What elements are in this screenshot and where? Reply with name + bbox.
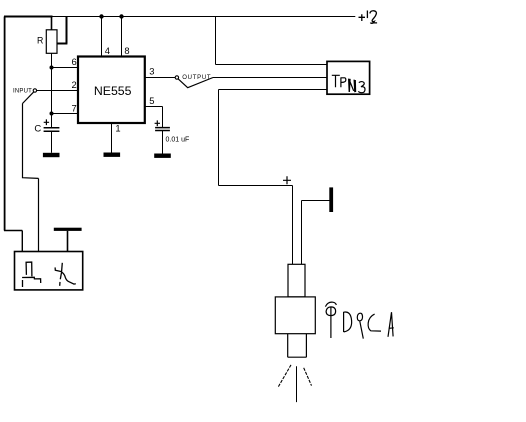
injector body xyxy=(275,297,315,334)
plus mark at spark plug xyxy=(283,176,291,184)
wire: HV lead down xyxy=(292,186,294,265)
wire: plate to sensor box xyxy=(67,231,69,252)
capacitor C plates xyxy=(44,128,60,132)
svg-text:NE555: NE555 xyxy=(94,84,132,98)
input terminal circle xyxy=(33,89,36,92)
capacitor C2 plates xyxy=(155,128,170,131)
electrode bar xyxy=(329,187,333,212)
wire: left branch from rail to sensor box xyxy=(4,17,22,252)
svg-text:6: 6 xyxy=(72,56,77,67)
wire pin 5 xyxy=(145,107,163,128)
antenna plate bar xyxy=(54,228,82,231)
wire: C2 to ground xyxy=(162,131,164,154)
sensor symbol: staple xyxy=(26,262,32,276)
svg-text:INPUT: INPUT xyxy=(13,89,32,95)
svg-text:3: 3 xyxy=(149,66,154,77)
IC U1 NE555 xyxy=(78,57,145,124)
wire: resistor tap to rail xyxy=(57,17,67,44)
transformer T1 box xyxy=(327,61,370,94)
svg-text:2: 2 xyxy=(72,79,77,90)
svg-text:1: 1 xyxy=(115,123,120,134)
svg-text:4: 4 xyxy=(105,45,110,56)
capacitor C2 polarity + xyxy=(155,120,160,126)
wire: output to transformer xyxy=(213,77,327,79)
label TPNZ (handwritten) xyxy=(332,75,365,92)
sensor symbol: scribble X xyxy=(55,263,76,286)
junction dot rail/pin8 xyxy=(119,14,123,18)
svg-text:5: 5 xyxy=(149,95,154,106)
svg-text:C: C xyxy=(34,123,41,134)
resistor R xyxy=(46,30,57,54)
junction dot pin7 node xyxy=(50,112,54,116)
ground under C xyxy=(43,153,60,157)
label FORSA (handwritten) xyxy=(325,302,393,338)
wire pin 6 xyxy=(52,67,79,69)
injector nozzle xyxy=(288,334,307,358)
wire: input down to sensor box xyxy=(23,104,39,252)
wire: transformer lower lead xyxy=(219,89,328,91)
svg-text:8: 8 xyxy=(124,45,129,56)
ground under pin 1 xyxy=(104,153,121,157)
injector upper neck xyxy=(288,264,305,297)
+12 rail xyxy=(4,16,355,18)
wire: C to ground xyxy=(51,131,53,153)
spray line center xyxy=(296,366,298,402)
wire pin 7 xyxy=(52,113,79,115)
capacitor C polarity + xyxy=(44,119,49,125)
wire pin 3 xyxy=(145,77,175,79)
svg-text:7: 7 xyxy=(72,103,77,114)
sensor symbol: base line xyxy=(22,277,41,287)
wire pin 1 xyxy=(111,123,113,153)
junction dot pin6 node xyxy=(50,66,54,70)
wire: node vertical (resistor to C) xyxy=(51,53,53,127)
ground under C2 xyxy=(154,154,171,158)
spray line left xyxy=(278,365,291,387)
+12 label xyxy=(359,11,378,24)
wire: rail to resistor top xyxy=(51,17,53,30)
wire: transformer to spark plug (HV minus) xyxy=(219,90,293,186)
wire: side electrode lead xyxy=(302,201,330,265)
output terminal circle xyxy=(175,76,178,79)
junction dot rail/pin4 xyxy=(99,14,103,18)
svg-text:R: R xyxy=(37,36,43,46)
output switch blade xyxy=(178,78,213,88)
wire pin 4 xyxy=(101,17,103,57)
wire: rail to transformer top xyxy=(216,17,328,65)
spray line right xyxy=(304,368,312,386)
input switch blade xyxy=(23,92,34,104)
sensor box xyxy=(15,252,83,290)
wire pin 2 xyxy=(37,90,78,92)
svg-text:0.01 uF: 0.01 uF xyxy=(166,136,190,143)
wire pin 8 xyxy=(121,17,123,57)
